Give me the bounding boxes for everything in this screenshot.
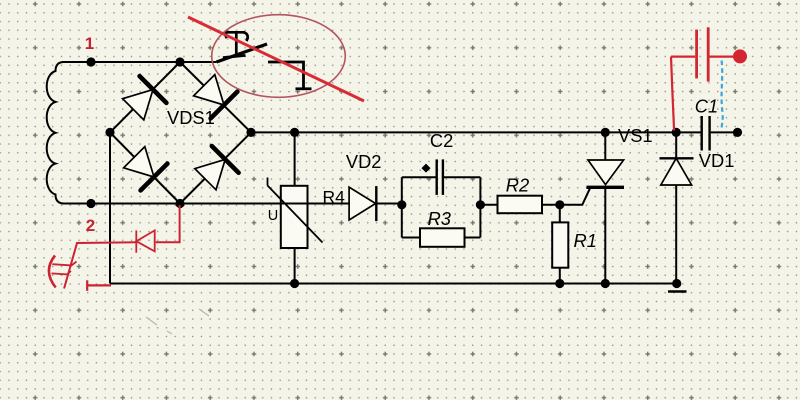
- wire: C2 top branch right: [444, 176, 481, 178]
- wire: VS1 gate: [560, 188, 590, 205]
- svg-text:U: U: [268, 208, 278, 224]
- wire: R3 bottom branch left: [402, 237, 420, 239]
- capacitor C2: [421, 159, 442, 195]
- svg-text:C2: C2: [430, 130, 453, 151]
- wire: bridge SW side: [110, 132, 180, 203]
- thyristor VS1: [587, 160, 625, 187]
- bridge diode VDS1 lower-right: [195, 146, 239, 190]
- red contact stroke B: [52, 271, 72, 274]
- switch lever (crossed-out): [217, 44, 268, 62]
- red blob terminal: [733, 49, 747, 63]
- switch fixed contact L-piece: [268, 62, 312, 89]
- wire: node to R1 top: [559, 205, 561, 223]
- red wire: diode to lever: [64, 242, 136, 288]
- red annotation strike line: [188, 17, 364, 101]
- wire: main dc line: [251, 131, 701, 133]
- faint pencil smudges: [146, 309, 209, 334]
- wire: bridge NE side: [180, 62, 251, 132]
- red capacitor plates: [695, 30, 698, 79]
- red annotation ellipse: [212, 15, 346, 98]
- wire: block to R2: [480, 204, 497, 206]
- wire: R3 bottom branch right: [465, 237, 481, 239]
- svg-text:R4: R4: [323, 187, 346, 207]
- wire: bridge NW side: [110, 62, 180, 132]
- svg-text:R3: R3: [428, 208, 451, 229]
- wire: varistor bottom to rail: [294, 248, 296, 284]
- red ground tick: [86, 280, 88, 291]
- wire: R2 to node: [542, 204, 560, 206]
- capacitor C1: [702, 116, 710, 151]
- bridge diode VDS1 upper-right: [194, 75, 238, 119]
- varistor U (box with diagonal): [268, 178, 323, 249]
- red wire: cap to blob: [710, 55, 735, 57]
- wire: C2/R3 left vertical: [401, 177, 403, 237]
- wire: VS1 anode vertical: [604, 132, 606, 160]
- wire: bridge left corner down to rail: [109, 132, 111, 283]
- resistor R1: [552, 222, 568, 267]
- diode VD2: [349, 186, 376, 221]
- red wire: bridge bottom to red diode: [156, 205, 180, 242]
- red diode annotation: [136, 230, 154, 251]
- resistor R2: [498, 196, 543, 214]
- winding W1 left scallops: [47, 62, 91, 204]
- wire: terminal 2 bottom: [62, 203, 349, 205]
- wire: VD2 cathode to C2 block: [376, 203, 402, 205]
- svg-text:1: 1: [85, 34, 94, 53]
- switch squiggle mark: [223, 32, 248, 57]
- red wire: horizontal left of cap: [671, 55, 695, 57]
- svg-text:VD2: VD2: [346, 151, 382, 172]
- wire: varistor top feed: [294, 132, 296, 185]
- resistor R3: [420, 228, 465, 247]
- diode VD1: [660, 158, 694, 185]
- svg-text:VS1: VS1: [618, 125, 653, 146]
- svg-text:R1: R1: [574, 230, 597, 251]
- wire: C2/R3 right vertical: [479, 177, 481, 237]
- bridge diode VDS1 upper-left: [123, 76, 167, 120]
- wire: VD1 anode to rail: [675, 185, 677, 284]
- red contact stroke A: [52, 262, 76, 266]
- wire: VS1 cathode to rail: [604, 187, 606, 283]
- ground: [668, 290, 687, 293]
- svg-text:VD1: VD1: [699, 150, 735, 171]
- red arc sketch: [49, 256, 56, 288]
- blue dashed line: [722, 61, 723, 131]
- svg-text:R2: R2: [506, 174, 529, 195]
- svg-text:2: 2: [86, 216, 95, 235]
- red wire: down to VD1 node: [671, 57, 674, 131]
- svg-text:C1: C1: [695, 95, 718, 116]
- wire: VD1 cathode vertical: [675, 132, 677, 158]
- svg-text:VDS1: VDS1: [167, 107, 215, 128]
- wire: bridge SE side: [180, 132, 251, 203]
- wire: terminal 1 top: [62, 61, 217, 63]
- wire: R1 bottom to rail: [559, 268, 561, 284]
- wire: C2 top branch left: [402, 176, 436, 178]
- wire: C1 to end node: [711, 131, 738, 133]
- bridge diode VDS1 lower-left: [124, 147, 168, 191]
- wire: bottom rail: [110, 283, 677, 285]
